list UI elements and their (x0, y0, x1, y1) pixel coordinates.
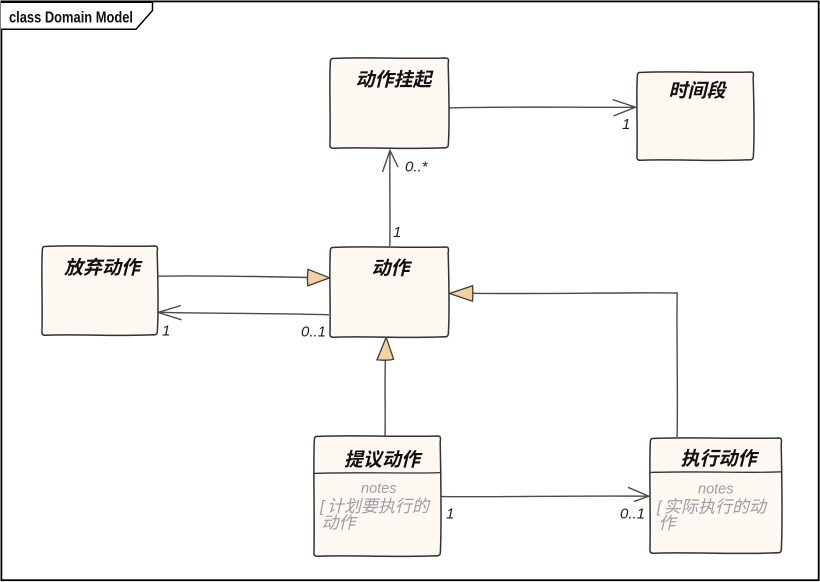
generalization 提议动作 to 动作 (377, 337, 394, 436)
class 动作挂起 (330, 58, 449, 149)
svg-text:1: 1 (393, 224, 401, 241)
class 执行动作 with notes (650, 438, 783, 554)
svg-text:0..*: 0..* (405, 159, 429, 176)
class 时间段 (637, 72, 754, 161)
svg-text:0..1: 0..1 (301, 324, 326, 341)
class 动作 (330, 247, 449, 338)
class 提议动作 with notes (314, 436, 442, 557)
diagram tab: class Domain Model (1, 2, 153, 29)
svg-text:notes: notes (698, 482, 733, 498)
svg-text:notes: notes (361, 481, 396, 497)
svg-text:0..1: 0..1 (620, 506, 645, 523)
svg-text:1: 1 (446, 506, 454, 523)
generalization 放弃动作 to 动作 (157, 269, 330, 286)
association 动作 to 动作挂起 (vertical) (383, 151, 429, 247)
svg-text:1: 1 (162, 323, 170, 340)
generalization 执行动作 to 动作 (elbow) (450, 286, 678, 437)
class 放弃动作 (42, 246, 158, 336)
association 提议动作 to 执行动作 (441, 487, 649, 522)
association 动作挂起 to 时间段 (449, 100, 636, 134)
svg-text:1: 1 (622, 116, 630, 133)
association 动作 to 放弃动作 (158, 306, 329, 341)
svg-text:class Domain Model: class Domain Model (9, 10, 133, 27)
